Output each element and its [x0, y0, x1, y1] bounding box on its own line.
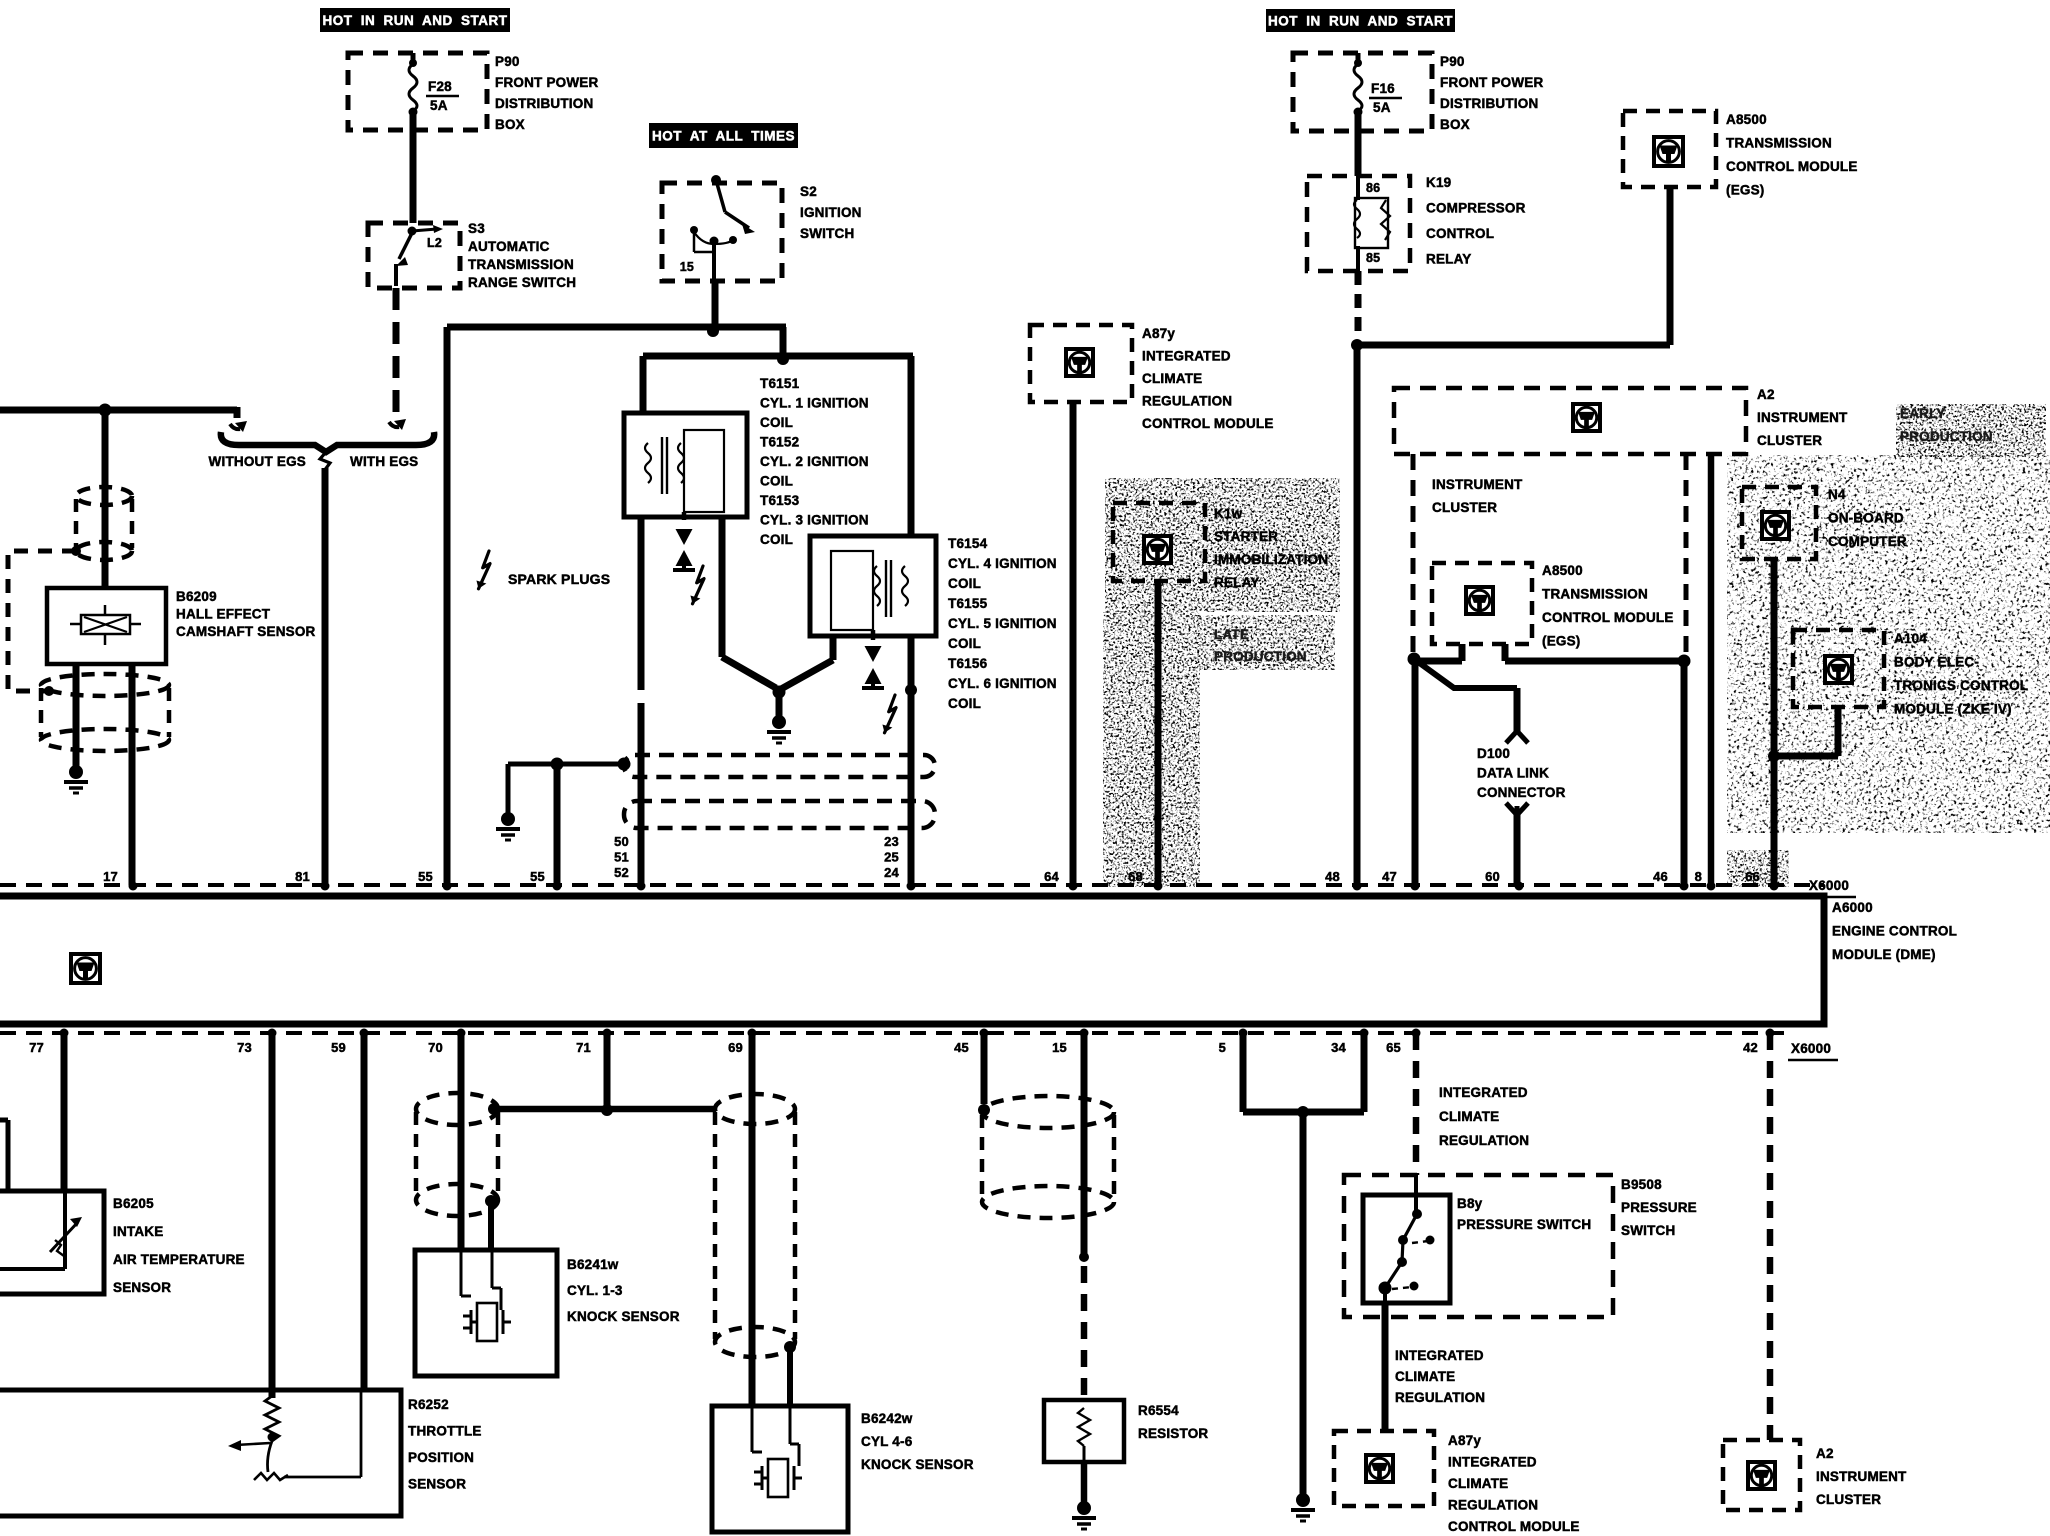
svg-text:42: 42 [1743, 1040, 1758, 1055]
svg-text:A87y: A87y [1448, 1433, 1481, 1448]
svg-text:86: 86 [1366, 181, 1380, 195]
svg-text:K1w: K1w [1214, 506, 1243, 521]
svg-text:52: 52 [614, 865, 629, 880]
svg-text:F16: F16 [1371, 81, 1395, 96]
svg-text:A87y: A87y [1142, 326, 1175, 341]
svg-text:CLIMATE: CLIMATE [1142, 371, 1202, 386]
svg-text:59: 59 [331, 1040, 346, 1055]
svg-text:COIL: COIL [760, 474, 793, 489]
svg-text:B9508: B9508 [1621, 1177, 1662, 1192]
svg-text:TRANSMISSION: TRANSMISSION [468, 257, 574, 272]
svg-text:55: 55 [418, 869, 433, 884]
svg-text:CAMSHAFT SENSOR: CAMSHAFT SENSOR [176, 624, 316, 639]
svg-text:CYL. 3 IGNITION: CYL. 3 IGNITION [760, 513, 869, 528]
svg-text:REGULATION: REGULATION [1142, 394, 1232, 409]
svg-text:ON-BOARD: ON-BOARD [1828, 511, 1904, 526]
svg-text:INSTRUMENT: INSTRUMENT [1816, 1469, 1907, 1484]
svg-text:5: 5 [1219, 1040, 1226, 1055]
svg-text:CONNECTOR: CONNECTOR [1477, 785, 1566, 800]
svg-text:MODULE (DME): MODULE (DME) [1832, 947, 1936, 962]
svg-text:BOX: BOX [495, 117, 525, 132]
svg-text:HOT AT ALL TIMES: HOT AT ALL TIMES [652, 129, 795, 144]
svg-text:BOX: BOX [1440, 117, 1470, 132]
svg-text:AIR TEMPERATURE: AIR TEMPERATURE [113, 1252, 245, 1267]
svg-text:HOT IN RUN AND START: HOT IN RUN AND START [1268, 14, 1453, 29]
svg-text:CONTROL MODULE: CONTROL MODULE [1142, 416, 1274, 431]
svg-text:A6000: A6000 [1832, 900, 1873, 915]
svg-text:A2: A2 [1757, 387, 1775, 402]
svg-text:COIL: COIL [948, 636, 981, 651]
svg-text:T6156: T6156 [948, 656, 988, 671]
svg-text:CLUSTER: CLUSTER [1757, 433, 1822, 448]
svg-text:X6000: X6000 [1791, 1041, 1831, 1056]
svg-text:N4: N4 [1828, 487, 1846, 502]
svg-text:70: 70 [428, 1040, 443, 1055]
svg-text:KNOCK SENSOR: KNOCK SENSOR [567, 1309, 680, 1324]
svg-text:66: 66 [1745, 869, 1760, 884]
svg-text:T6153: T6153 [760, 493, 800, 508]
svg-text:R6252: R6252 [408, 1397, 449, 1412]
svg-text:REGULATION: REGULATION [1395, 1390, 1485, 1405]
svg-text:15: 15 [1052, 1040, 1067, 1055]
svg-text:51: 51 [614, 850, 629, 865]
svg-text:CONTROL MODULE: CONTROL MODULE [1448, 1519, 1580, 1534]
svg-text:55: 55 [530, 869, 545, 884]
svg-text:INTEGRATED: INTEGRATED [1142, 349, 1231, 364]
svg-text:77: 77 [29, 1040, 44, 1055]
svg-text:24: 24 [884, 865, 899, 880]
svg-text:(EGS): (EGS) [1542, 634, 1581, 649]
svg-text:CLIMATE: CLIMATE [1439, 1109, 1499, 1124]
svg-text:CONTROL: CONTROL [1426, 226, 1494, 241]
svg-text:AUTOMATIC: AUTOMATIC [468, 239, 550, 254]
svg-text:B8y: B8y [1457, 1196, 1483, 1211]
svg-text:SWITCH: SWITCH [800, 226, 854, 241]
svg-text:A8500: A8500 [1726, 112, 1767, 127]
svg-text:FRONT POWER: FRONT POWER [1440, 75, 1543, 90]
svg-text:TRANSMISSION: TRANSMISSION [1726, 136, 1832, 151]
svg-text:8: 8 [1695, 869, 1702, 884]
svg-text:RELAY: RELAY [1426, 252, 1472, 267]
svg-text:73: 73 [237, 1040, 252, 1055]
svg-text:CYL. 2 IGNITION: CYL. 2 IGNITION [760, 454, 869, 469]
svg-text:46: 46 [1653, 869, 1668, 884]
svg-text:CYL. 5 IGNITION: CYL. 5 IGNITION [948, 616, 1057, 631]
svg-text:68: 68 [1128, 869, 1143, 884]
svg-text:B6205: B6205 [113, 1196, 154, 1211]
svg-text:PRODUCTION: PRODUCTION [1900, 429, 1993, 444]
svg-text:COIL: COIL [760, 532, 793, 547]
svg-text:SENSOR: SENSOR [408, 1477, 466, 1492]
svg-text:85: 85 [1366, 251, 1380, 265]
svg-text:69: 69 [728, 1040, 743, 1055]
svg-text:THROTTLE: THROTTLE [408, 1424, 482, 1439]
svg-text:COMPRESSOR: COMPRESSOR [1426, 201, 1526, 216]
svg-text:CONTROL MODULE: CONTROL MODULE [1726, 159, 1858, 174]
svg-text:SPARK PLUGS: SPARK PLUGS [508, 571, 610, 587]
svg-text:SENSOR: SENSOR [113, 1280, 171, 1295]
svg-text:T6152: T6152 [760, 435, 799, 450]
svg-text:IGNITION: IGNITION [800, 205, 862, 220]
svg-text:CYL. 1 IGNITION: CYL. 1 IGNITION [760, 396, 869, 411]
svg-text:PRODUCTION: PRODUCTION [1214, 649, 1307, 664]
svg-text:CLUSTER: CLUSTER [1432, 500, 1497, 515]
svg-text:25: 25 [884, 850, 899, 865]
svg-text:B6241w: B6241w [567, 1257, 619, 1272]
svg-text:TRONICS CONTROL: TRONICS CONTROL [1894, 678, 2028, 693]
svg-text:S3: S3 [468, 221, 485, 236]
svg-text:INTAKE: INTAKE [113, 1224, 163, 1239]
svg-text:D100: D100 [1477, 746, 1510, 761]
svg-text:POSITION: POSITION [408, 1450, 474, 1465]
svg-text:INTEGRATED: INTEGRATED [1395, 1348, 1484, 1363]
svg-text:CYL. 6 IGNITION: CYL. 6 IGNITION [948, 676, 1057, 691]
svg-text:RESISTOR: RESISTOR [1138, 1426, 1208, 1441]
svg-text:81: 81 [295, 869, 310, 884]
svg-text:INTEGRATED: INTEGRATED [1448, 1455, 1537, 1470]
svg-text:PRESSURE SWITCH: PRESSURE SWITCH [1457, 1217, 1591, 1232]
svg-text:COIL: COIL [948, 576, 981, 591]
svg-text:T6155: T6155 [948, 596, 988, 611]
svg-text:ENGINE CONTROL: ENGINE CONTROL [1832, 924, 1957, 939]
svg-text:23: 23 [884, 834, 899, 849]
svg-text:F28: F28 [428, 79, 452, 94]
svg-text:5A: 5A [430, 98, 448, 113]
svg-text:K19: K19 [1426, 175, 1451, 190]
svg-text:64: 64 [1044, 869, 1059, 884]
svg-text:T6154: T6154 [948, 536, 988, 551]
svg-text:IMMOBILIZATION: IMMOBILIZATION [1214, 552, 1328, 567]
svg-text:65: 65 [1386, 1040, 1401, 1055]
svg-text:A2: A2 [1816, 1446, 1834, 1461]
svg-text:R6554: R6554 [1138, 1403, 1179, 1418]
svg-text:(EGS): (EGS) [1726, 183, 1765, 198]
svg-text:CLIMATE: CLIMATE [1448, 1476, 1508, 1491]
svg-text:COIL: COIL [948, 696, 981, 711]
svg-text:EARLY: EARLY [1900, 406, 1946, 421]
svg-text:B6242w: B6242w [861, 1411, 913, 1426]
svg-text:X6000: X6000 [1809, 878, 1849, 893]
svg-text:COMPUTER: COMPUTER [1828, 534, 1907, 549]
svg-text:B6209: B6209 [176, 589, 217, 604]
svg-text:INSTRUMENT: INSTRUMENT [1757, 410, 1848, 425]
svg-text:RANGE SWITCH: RANGE SWITCH [468, 275, 576, 290]
svg-text:5A: 5A [1373, 100, 1391, 115]
svg-text:TRANSMISSION: TRANSMISSION [1542, 587, 1648, 602]
svg-text:BODY ELEC-: BODY ELEC- [1894, 655, 1979, 670]
svg-text:P90: P90 [1440, 54, 1465, 69]
svg-text:KNOCK SENSOR: KNOCK SENSOR [861, 1457, 974, 1472]
svg-text:DATA LINK: DATA LINK [1477, 766, 1549, 781]
svg-text:50: 50 [614, 834, 629, 849]
svg-text:WITH EGS: WITH EGS [350, 454, 418, 469]
svg-text:T6151: T6151 [760, 376, 800, 391]
svg-text:CLUSTER: CLUSTER [1816, 1492, 1881, 1507]
svg-text:REGULATION: REGULATION [1439, 1133, 1529, 1148]
svg-text:CLIMATE: CLIMATE [1395, 1369, 1455, 1384]
svg-text:CYL. 4 IGNITION: CYL. 4 IGNITION [948, 556, 1057, 571]
svg-text:PRESSURE: PRESSURE [1621, 1200, 1697, 1215]
svg-text:STARTER: STARTER [1214, 529, 1278, 544]
svg-text:71: 71 [576, 1040, 591, 1055]
svg-text:WITHOUT EGS: WITHOUT EGS [209, 454, 306, 469]
svg-text:HOT IN RUN AND START: HOT IN RUN AND START [323, 13, 508, 28]
svg-text:A104: A104 [1894, 631, 1927, 646]
svg-text:CYL 4-6: CYL 4-6 [861, 1434, 913, 1449]
svg-text:INSTRUMENT: INSTRUMENT [1432, 477, 1523, 492]
svg-text:INTEGRATED: INTEGRATED [1439, 1085, 1528, 1100]
svg-text:SWITCH: SWITCH [1621, 1223, 1675, 1238]
svg-text:CONTROL MODULE: CONTROL MODULE [1542, 610, 1674, 625]
svg-text:L2: L2 [427, 236, 442, 250]
svg-text:45: 45 [954, 1040, 969, 1055]
svg-text:17: 17 [103, 869, 118, 884]
svg-text:34: 34 [1331, 1040, 1346, 1055]
svg-text:MODULE (ZKE IV): MODULE (ZKE IV) [1894, 702, 2012, 717]
svg-text:COIL: COIL [760, 415, 793, 430]
svg-text:HALL EFFECT: HALL EFFECT [176, 607, 271, 622]
svg-text:REGULATION: REGULATION [1448, 1498, 1538, 1513]
svg-text:47: 47 [1382, 869, 1397, 884]
svg-text:LATE: LATE [1214, 627, 1249, 642]
svg-text:DISTRIBUTION: DISTRIBUTION [495, 96, 593, 111]
svg-text:15: 15 [680, 260, 694, 274]
svg-text:DISTRIBUTION: DISTRIBUTION [1440, 96, 1538, 111]
svg-text:S2: S2 [800, 184, 817, 199]
svg-text:48: 48 [1325, 869, 1340, 884]
svg-text:60: 60 [1485, 869, 1500, 884]
svg-text:P90: P90 [495, 54, 520, 69]
svg-text:FRONT POWER: FRONT POWER [495, 75, 598, 90]
svg-text:CYL. 1-3: CYL. 1-3 [567, 1283, 623, 1298]
svg-text:RELAY: RELAY [1214, 575, 1260, 590]
svg-text:A8500: A8500 [1542, 563, 1583, 578]
